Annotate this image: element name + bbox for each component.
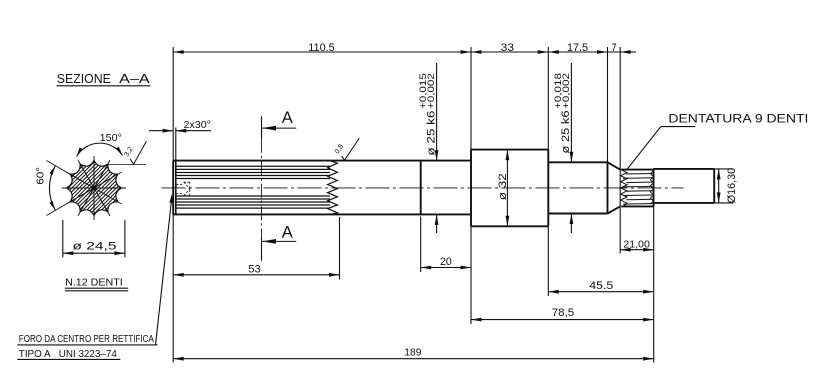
svg-text:3,2: 3,2	[124, 146, 135, 158]
spline section lines with pointed run-out	[176, 161, 338, 215]
shaft section1 bottom edge	[173, 213, 471, 215]
dimension dia25 k6 +0,018/+0,002 (journal2)	[553, 63, 573, 233]
dimension 7 (outside arrows)	[611, 42, 630, 54]
dimension 78,5	[471, 226, 654, 324]
dimension 60deg	[35, 166, 95, 216]
label DENTATURA 9 DENTI with leader	[627, 112, 808, 169]
end cylinder dia16.30	[654, 169, 715, 203]
svg-text:150°: 150°	[100, 132, 122, 144]
svg-text:20: 20	[440, 256, 452, 268]
svg-text:ø 25 k6: ø 25 k6	[425, 111, 437, 156]
svg-text:7: 7	[611, 42, 616, 54]
dimension dia25 k6 +0,015/+0,002 (journal1)	[418, 63, 438, 233]
svg-text:SEZIONE: SEZIONE	[57, 72, 111, 86]
svg-text:N.12 DENTI: N.12 DENTI	[65, 277, 123, 289]
extension line x=471	[470, 47, 472, 150]
shaft left end face	[172, 161, 174, 215]
svg-text:ø 24,5: ø 24,5	[73, 241, 117, 253]
svg-text:+0,015+0,002: +0,015+0,002	[418, 73, 436, 109]
taper neck to serration	[608, 162, 621, 213]
svg-text:DENTATURA 9 DENTI: DENTATURA 9 DENTI	[668, 112, 808, 126]
svg-text:A: A	[282, 223, 293, 241]
svg-text:+0,018+0,002: +0,018+0,002	[553, 73, 571, 109]
svg-text:A–A: A–A	[119, 72, 150, 86]
serration dentatura 9 denti	[621, 170, 654, 207]
svg-text:0,8: 0,8	[334, 143, 345, 155]
svg-text:Ø16,30: Ø16,30	[726, 168, 738, 203]
svg-text:45.5: 45.5	[589, 280, 613, 292]
dimension dia16,30	[714, 168, 738, 203]
svg-text:TIPO A UNI 3223–74: TIPO A UNI 3223–74	[19, 349, 117, 360]
dimension 110.5	[173, 42, 471, 54]
dimension 189	[173, 346, 654, 360]
dimension 53	[173, 217, 339, 279]
shaft left chamfer edge	[175, 161, 177, 213]
svg-text:FORO DA CENTRO PER RETTIFICA: FORO DA CENTRO PER RETTIFICA	[19, 334, 154, 345]
svg-text:ø 25 k6: ø 25 k6	[560, 111, 572, 154]
svg-text:53: 53	[248, 264, 261, 276]
dimension dia 24,5	[63, 220, 125, 257]
svg-text:A: A	[282, 109, 293, 127]
dimension 17.5	[548, 42, 607, 54]
section A-A hub outline with hatching	[0, 146, 199, 230]
main centerline	[162, 187, 684, 189]
shaft section1 top edge	[173, 160, 471, 162]
dimension 2x30deg chamfer	[149, 119, 211, 160]
svg-text:21,00: 21,00	[623, 238, 650, 250]
dimension 150deg	[46, 132, 146, 188]
section title SEZIONE A-A	[57, 72, 151, 86]
extension line left (x=173.2)	[172, 47, 174, 363]
extension line x=607.5	[607, 47, 609, 162]
dimension 45.5	[548, 226, 653, 296]
step dia24.95/dia25	[420, 161, 422, 215]
dimension dia32	[497, 150, 510, 227]
extension line x=548.3	[547, 47, 549, 150]
svg-text:33: 33	[501, 42, 514, 54]
top dimension line	[173, 51, 636, 53]
svg-text:2x30°: 2x30°	[184, 119, 211, 131]
dimension 21,00	[620, 206, 654, 362]
roughness symbol 0,8 (spline)	[334, 138, 359, 160]
svg-text:110.5: 110.5	[308, 42, 335, 54]
dimension 20	[421, 217, 471, 273]
roughness symbol 3,2 (section)	[124, 141, 147, 164]
section cut line A-A with arrows	[262, 109, 297, 261]
note FORO DA CENTRO PER RETTIFICA / TIPO A UNI 3223-74 with leader	[17, 194, 172, 360]
section spokes (tooth centerlines)',	[62, 156, 126, 220]
svg-text:189: 189	[404, 346, 421, 358]
extension line x=620.2	[619, 47, 621, 254]
center drill hole detail (dashed)	[176, 182, 190, 195]
dia32 collar outline	[471, 150, 548, 227]
note N.12 DENTI	[65, 277, 128, 291]
svg-text:17.5: 17.5	[567, 42, 588, 54]
svg-text:ø 32: ø 32	[497, 173, 509, 200]
journal2 dia25 outline	[548, 162, 607, 213]
svg-text:78,5: 78,5	[552, 307, 575, 319]
dimension 33	[471, 42, 548, 54]
svg-text:60°: 60°	[35, 167, 47, 185]
